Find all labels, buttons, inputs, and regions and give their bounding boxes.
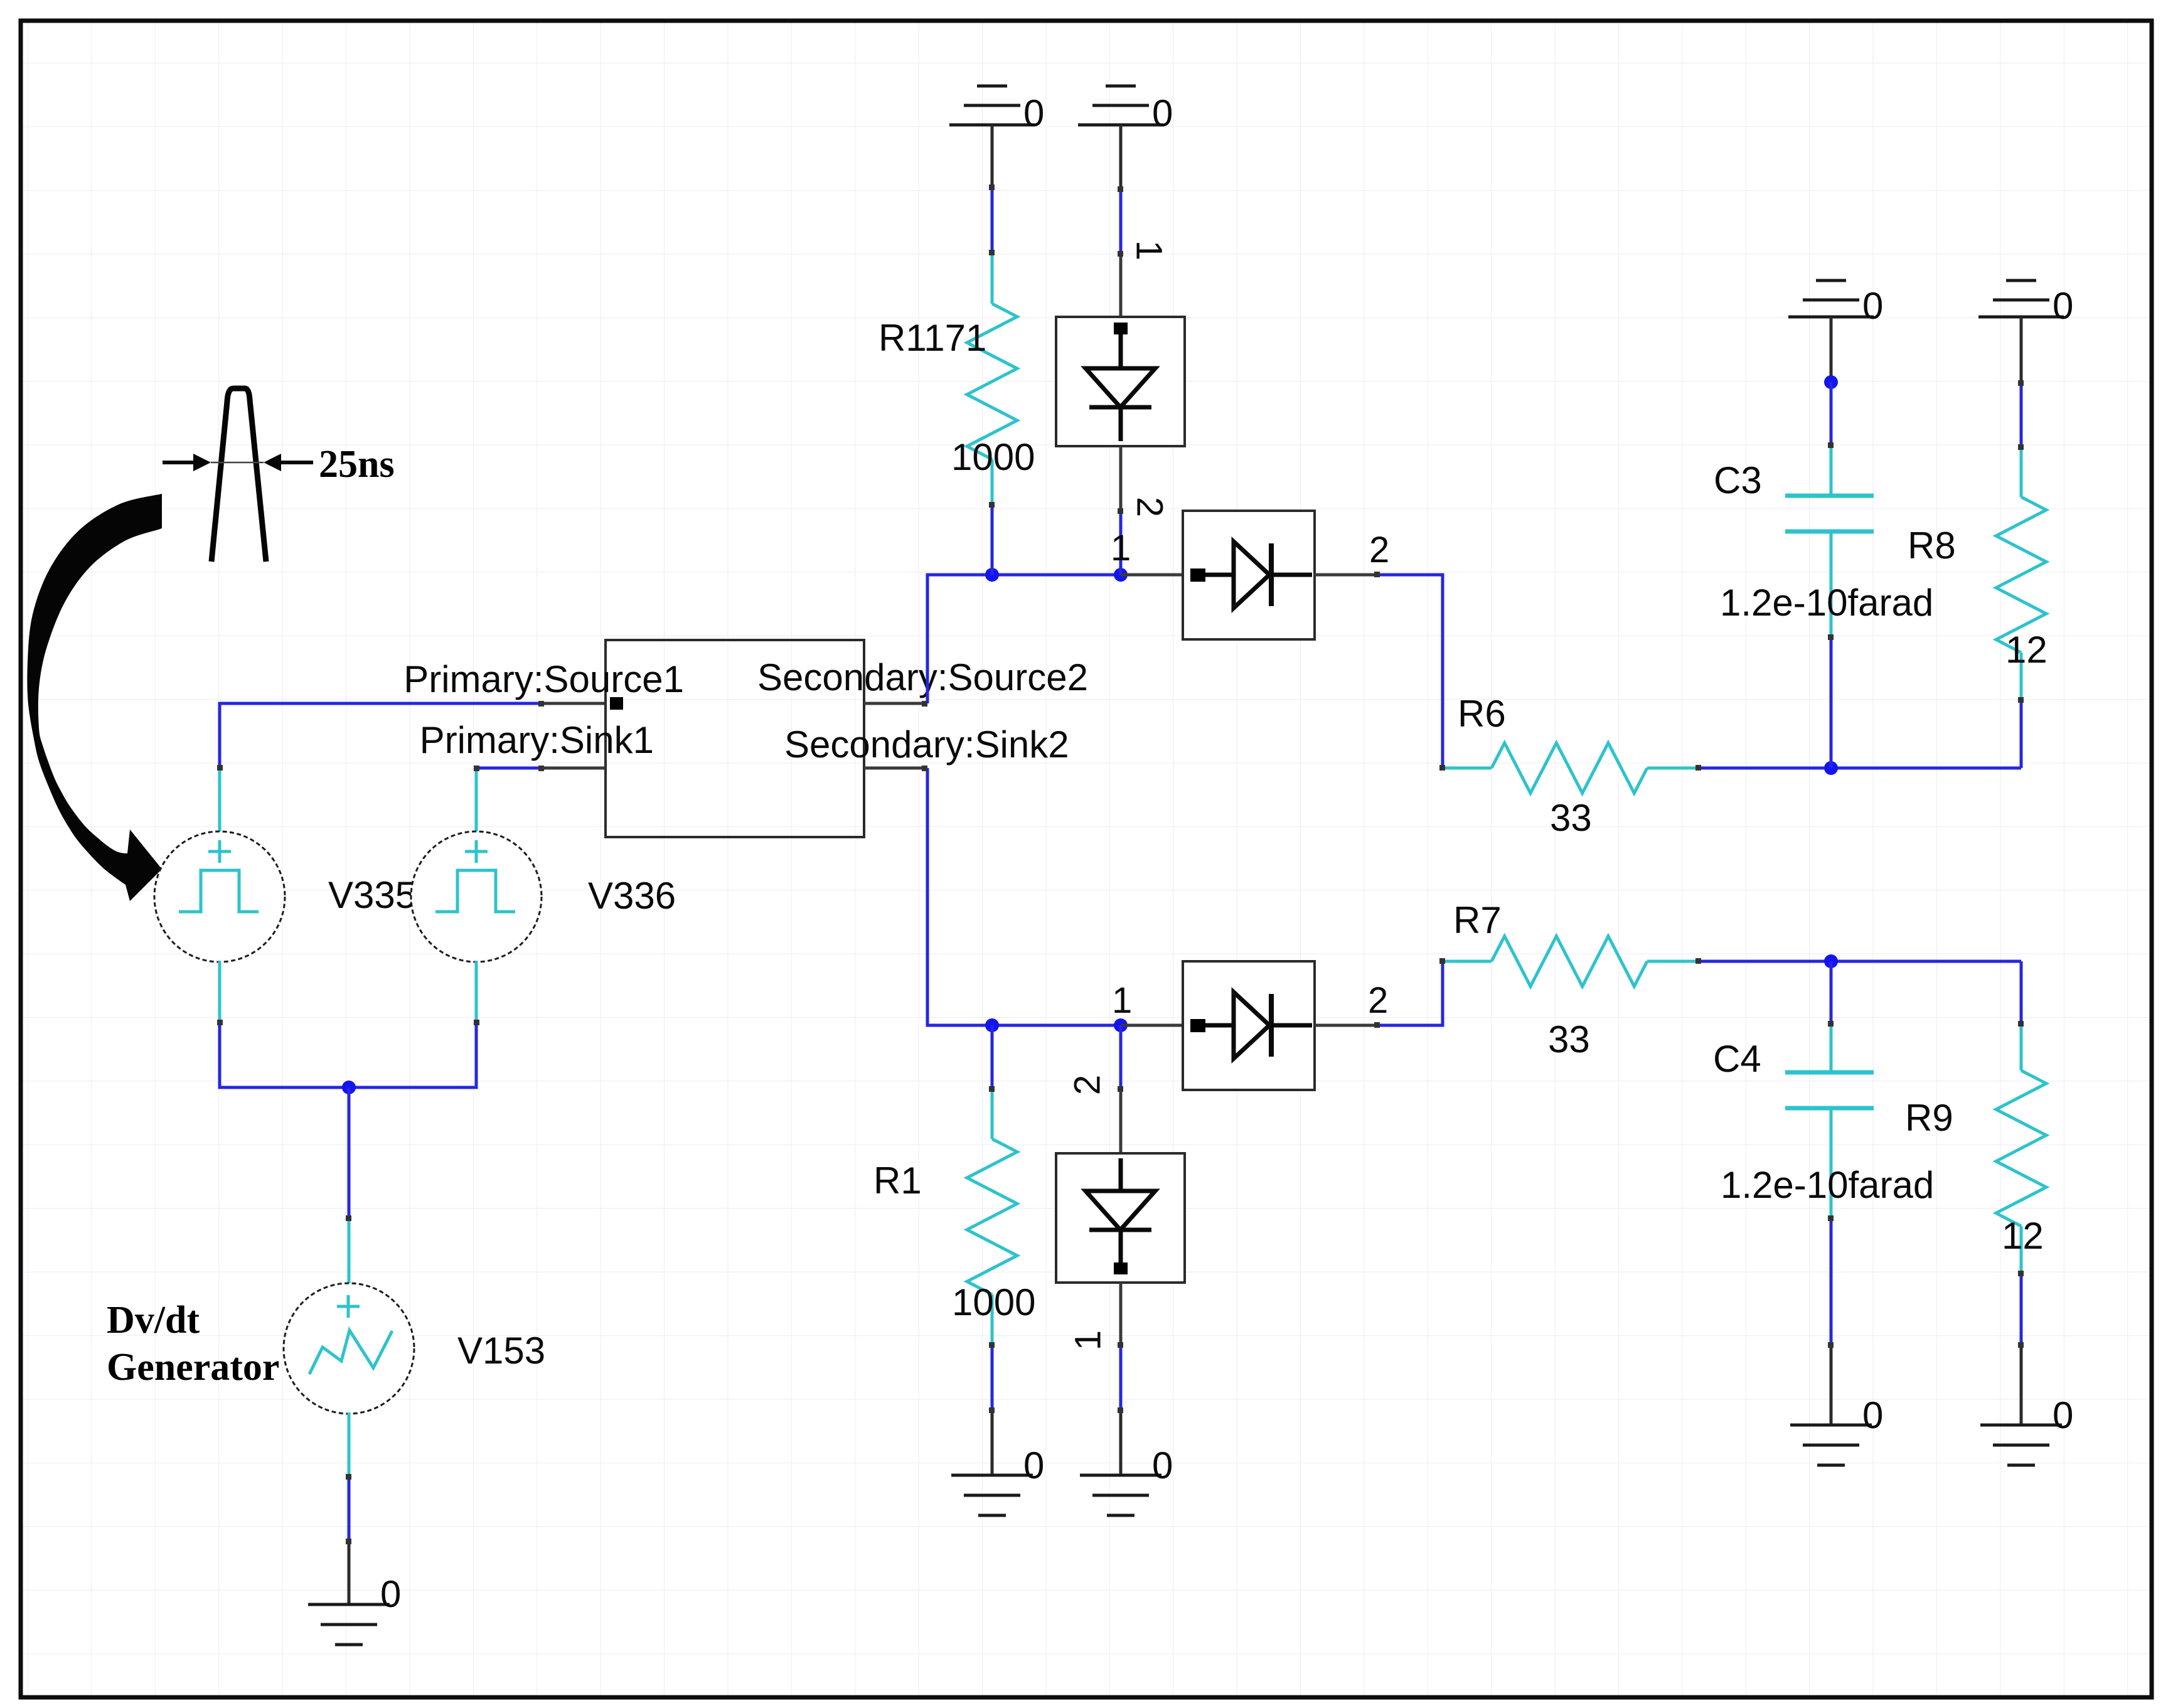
svg-text:12: 12 bbox=[2005, 629, 2048, 671]
svg-text:2: 2 bbox=[1369, 530, 1389, 570]
wire: common node to V153 bbox=[348, 1087, 351, 1218]
ground stem V153 bbox=[348, 1542, 351, 1604]
wire: bottom bus V335-V336 bbox=[220, 1022, 476, 1087]
svg-text:2: 2 bbox=[1067, 1075, 1108, 1095]
wire: V335 bottom bbox=[218, 961, 222, 1022]
junction: bottom net at diode column bbox=[1114, 1018, 1128, 1032]
voltage source V153 bbox=[284, 1283, 414, 1414]
wire: C4 to ground bbox=[1830, 1219, 1833, 1345]
wire: ground to R8 bbox=[2020, 383, 2023, 447]
wire: ground to R1171 bbox=[991, 187, 994, 252]
annotation: dimension line across bbox=[211, 462, 264, 464]
pin stub: Secondary:Source2 bbox=[864, 702, 927, 705]
svg-text:1: 1 bbox=[1112, 980, 1132, 1021]
svg-text:R6: R6 bbox=[1458, 693, 1506, 735]
svg-text:Dv/dt: Dv/dt bbox=[107, 1299, 200, 1342]
wire: R7 to R9 node bbox=[1699, 960, 2021, 963]
wire: V153 to ground bbox=[348, 1476, 351, 1542]
svg-text:0: 0 bbox=[1023, 1444, 1044, 1486]
annotation: dimension line right arrow bbox=[264, 454, 313, 471]
svg-text:0: 0 bbox=[1862, 285, 1883, 327]
wire: V336 bottom bbox=[475, 961, 478, 1022]
svg-text:Primary:Source1: Primary:Source1 bbox=[403, 658, 684, 700]
ground: below D4 bbox=[1080, 1475, 1161, 1515]
transformer U1 box bbox=[606, 640, 864, 837]
annotation: big curved arrow bbox=[27, 494, 162, 901]
svg-text:V336: V336 bbox=[588, 875, 676, 917]
junction: R7/C4/R9 node bbox=[1824, 954, 1838, 968]
svg-text:12: 12 bbox=[2002, 1215, 2044, 1257]
resistor R1171 bbox=[967, 252, 1017, 505]
wire: R9 to ground bbox=[2020, 1274, 2023, 1345]
ground stem below C4 bbox=[1830, 1345, 1833, 1425]
svg-text:Primary:Sink1: Primary:Sink1 bbox=[420, 719, 654, 761]
svg-text:R8: R8 bbox=[1908, 525, 1956, 567]
resistor R6 bbox=[1443, 743, 1699, 793]
pin stub: D2 left bbox=[1121, 1024, 1183, 1027]
wire: C3 to node bbox=[1830, 638, 1833, 768]
wire: R1171 to top net bbox=[991, 505, 994, 575]
svg-text:R9: R9 bbox=[1905, 1097, 1953, 1139]
wire: D4 to ground bbox=[1119, 1345, 1123, 1411]
wire: R1 to ground bbox=[991, 1345, 994, 1411]
wire: V336 top pin cyan bbox=[475, 768, 478, 833]
svg-text:0: 0 bbox=[1152, 92, 1173, 134]
ground: above C3 (inverted) bbox=[1788, 280, 1874, 317]
svg-text:33: 33 bbox=[1550, 797, 1592, 839]
svg-text:C3: C3 bbox=[1714, 459, 1762, 501]
ground: below R9 bbox=[1980, 1425, 2062, 1465]
ground stem below R1 bbox=[991, 1411, 994, 1475]
svg-text:R1: R1 bbox=[873, 1160, 922, 1202]
svg-text:Generator: Generator bbox=[107, 1346, 279, 1389]
resistor R7 bbox=[1443, 936, 1699, 986]
svg-text:25ns: 25ns bbox=[319, 443, 395, 486]
wire: R8 to R6 row bbox=[2020, 700, 2023, 768]
svg-text:1.2e-10farad: 1.2e-10farad bbox=[1721, 1164, 1934, 1206]
svg-text:0: 0 bbox=[380, 1573, 401, 1615]
diode D2 (horizontal, bottom) bbox=[1183, 961, 1315, 1090]
wire: D2 to R7 bbox=[1377, 961, 1443, 1025]
tick marks at pin joints bbox=[217, 184, 2024, 1544]
svg-text:Secondary:Source2: Secondary:Source2 bbox=[757, 656, 1088, 698]
wire: V336 to Primary:Sink1 bbox=[476, 767, 541, 770]
wire: ground to C3 bbox=[1830, 382, 1833, 446]
pin stub: Secondary:Sink2 bbox=[864, 767, 927, 770]
pin stub: D2 right bbox=[1315, 1024, 1377, 1027]
svg-text:1.2e-10farad: 1.2e-10farad bbox=[1720, 582, 1933, 624]
wire: R6 to R8 node bbox=[1699, 767, 2021, 770]
ground stem above C3 bbox=[1830, 317, 1833, 382]
wire: V153 top pin cyan bbox=[348, 1218, 351, 1284]
pin stub: Primary:Sink1 bbox=[541, 767, 606, 770]
ground stem below R9 bbox=[2020, 1345, 2023, 1425]
pin stub: Primary:Source1 bbox=[541, 702, 606, 705]
ground: below V153 bbox=[308, 1604, 390, 1645]
svg-text:1: 1 bbox=[1068, 1330, 1109, 1350]
ground stem above R8 bbox=[2020, 317, 2023, 383]
junction: bottom net at R1 bbox=[985, 1018, 999, 1032]
diode D3 (vertical, top) bbox=[1056, 317, 1185, 446]
wire: Source2 up to top net bbox=[927, 575, 1121, 703]
pin stub: D4 top bbox=[1119, 1089, 1123, 1153]
resistor R9 bbox=[1996, 961, 2046, 1274]
diode D4 (vertical, bottom) bbox=[1056, 1153, 1185, 1283]
svg-text:0: 0 bbox=[1023, 92, 1044, 134]
ground stem below D4 bbox=[1119, 1411, 1123, 1475]
svg-text:1: 1 bbox=[1129, 240, 1170, 260]
svg-text:2: 2 bbox=[1368, 980, 1388, 1021]
pin stub: D4 bottom bbox=[1119, 1283, 1123, 1345]
svg-text:V153: V153 bbox=[457, 1330, 545, 1372]
wire: V335 pin stub cyan bbox=[218, 767, 222, 833]
svg-text:33: 33 bbox=[1548, 1018, 1590, 1060]
wire: D1 to R6 bbox=[1377, 575, 1443, 768]
svg-text:0: 0 bbox=[1862, 1394, 1883, 1436]
transformer pin-1 marker square bbox=[610, 697, 623, 710]
voltage source V335 bbox=[154, 831, 285, 962]
pin stub: D3 top bbox=[1119, 254, 1123, 317]
wire: V335 top to Primary:Source1 bbox=[220, 703, 541, 767]
svg-text:0: 0 bbox=[2053, 285, 2073, 327]
ground: above diode D3 (inverted) bbox=[1078, 86, 1163, 125]
wire: ground to D3 pin1 bbox=[1119, 189, 1123, 254]
pin stub: D1 right bbox=[1315, 574, 1377, 577]
ground stem above R1171 bbox=[991, 125, 994, 187]
wire: Sink2 down to bottom net bbox=[927, 768, 1121, 1025]
svg-text:1000: 1000 bbox=[952, 1281, 1035, 1323]
ground: below R1 bbox=[951, 1475, 1033, 1515]
junction: top net at diode column bbox=[1114, 568, 1128, 582]
annotation: dimension line left arrow bbox=[163, 454, 211, 471]
pin stub: D1 left bbox=[1121, 574, 1183, 577]
svg-text:0: 0 bbox=[1152, 1444, 1173, 1486]
svg-text:C4: C4 bbox=[1713, 1038, 1761, 1080]
annotation: pulse waveform trapezoid bbox=[211, 388, 266, 562]
capacitor C4 bbox=[1785, 961, 1874, 1219]
svg-text:0: 0 bbox=[2053, 1394, 2073, 1436]
ground stem above D3 bbox=[1119, 125, 1123, 189]
svg-text:Secondary:Sink2: Secondary:Sink2 bbox=[784, 723, 1069, 766]
svg-text:2: 2 bbox=[1129, 497, 1170, 517]
resistor R8 bbox=[1996, 447, 2046, 700]
junction: top net at R1171 bbox=[985, 568, 999, 582]
resistor R1 bbox=[967, 1025, 1017, 1345]
ground: below C4 bbox=[1790, 1425, 1872, 1465]
voltage source V336 bbox=[411, 831, 542, 962]
junction: R6/C3/R8 node bbox=[1824, 761, 1838, 775]
svg-text:R7: R7 bbox=[1453, 899, 1502, 941]
diode D1 (horizontal, top) bbox=[1183, 511, 1315, 639]
junction: C3 ground node bbox=[1824, 375, 1838, 389]
pin stub: D3 bottom bbox=[1119, 446, 1123, 511]
ground: above R1171 (inverted) bbox=[949, 86, 1035, 125]
wire: D3 to top net bbox=[1119, 511, 1123, 575]
junction: sources common node bbox=[342, 1081, 356, 1094]
wire: V153 bottom cyan bbox=[348, 1412, 351, 1476]
svg-text:1: 1 bbox=[1111, 528, 1131, 568]
svg-text:1000: 1000 bbox=[951, 436, 1035, 478]
ground: above R8 (inverted) bbox=[1978, 280, 2064, 317]
wire: bottom net to D4 bbox=[1119, 1025, 1123, 1089]
svg-text:V335: V335 bbox=[328, 874, 416, 916]
svg-text:R1171: R1171 bbox=[878, 317, 986, 359]
capacitor C3 bbox=[1785, 446, 1874, 638]
